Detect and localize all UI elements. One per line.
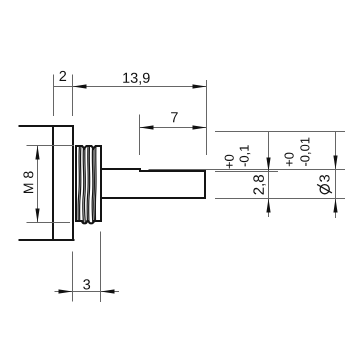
arrow M8 top xyxy=(35,146,39,160)
arrow 3 left outside xyxy=(59,289,73,293)
arrow M8 bottom xyxy=(35,209,39,223)
arrow 7 right xyxy=(193,125,207,129)
label 3 xyxy=(83,279,90,289)
wire shaft top (full diameter) xyxy=(101,168,140,170)
label tol -0,1 xyxy=(240,145,251,166)
label tol +0 of 2,8 xyxy=(225,155,234,169)
label dia3 diameter symbol circle xyxy=(320,185,329,194)
wire ext line shaft bottom xyxy=(215,198,345,200)
wire ext line 7-left xyxy=(139,115,141,156)
arrow dia3 top xyxy=(333,156,337,170)
wire shaft flat top xyxy=(140,170,205,172)
wire thread collar right face xyxy=(100,146,102,221)
arrow 13,9 left xyxy=(73,84,87,88)
wire thread collar top edge xyxy=(76,146,101,149)
label M 8 xyxy=(23,171,33,193)
wire ext line flat top xyxy=(215,171,278,173)
wire ext line 2-left xyxy=(53,75,55,117)
wire ext line 3-left xyxy=(72,252,74,302)
wire ext line 3-right xyxy=(100,232,102,303)
wire shaft bottom xyxy=(101,197,205,199)
wire M8 dim line xyxy=(37,146,39,223)
label dia3 diameter symbol slash xyxy=(317,184,332,193)
wire ext line 2-right / 13,9-left xyxy=(72,75,74,117)
wire shaft step xyxy=(139,169,141,171)
label 2,8 xyxy=(253,175,265,195)
wire dim line diameter 3 xyxy=(335,132,337,219)
wire body top edge xyxy=(20,125,74,127)
dimension thin lines xyxy=(27,75,346,303)
wire dim line 3 xyxy=(55,291,120,293)
wire thread collar bottom edge xyxy=(76,221,101,223)
wire thread crest line 4 xyxy=(83,146,86,222)
arrowheads xyxy=(35,84,337,293)
wire flange left face xyxy=(52,126,54,240)
wire dim line 2 and 13,9 xyxy=(54,86,207,88)
wire thread crest line 2 xyxy=(80,146,81,221)
wire M8 ext bottom xyxy=(27,222,71,224)
arrow 2,8 top xyxy=(266,158,270,172)
wire thread crest line 5 xyxy=(87,146,88,221)
arrow 3 right outside xyxy=(101,289,115,293)
wire thread crest line 7 xyxy=(91,148,94,222)
wire ext line right of 13,9 and 7 xyxy=(206,80,208,155)
arrow 13,9 right xyxy=(193,84,207,88)
wire thread crest line 3 xyxy=(83,148,84,222)
label dia3 digit xyxy=(319,175,329,182)
wire ext line shaft full top xyxy=(149,169,346,171)
label 7 xyxy=(171,112,178,122)
thread helix lines xyxy=(78,146,96,223)
wire thread crest line 1 xyxy=(78,146,79,221)
label tol +0 of dia3 xyxy=(285,153,294,167)
wire connector line top right xyxy=(215,131,345,133)
label tol -0,01 xyxy=(300,138,311,166)
wire thread collar left edge xyxy=(75,146,77,221)
wire body bottom edge xyxy=(20,239,74,241)
wire flange right face xyxy=(72,126,74,240)
wire shaft tip face xyxy=(204,171,206,198)
wire M8 ext top xyxy=(27,145,75,147)
wire dim line 2,8 xyxy=(268,132,270,218)
wire thread crest line 8 xyxy=(93,146,96,222)
wire thread crest line 9 xyxy=(94,146,97,221)
wire dim line 7 xyxy=(140,127,207,129)
label 2 xyxy=(60,71,67,81)
arrow dia3 bottom xyxy=(333,199,337,213)
wire thread crest line 6 xyxy=(89,146,90,221)
part outline group xyxy=(20,126,206,240)
label 13,9 xyxy=(123,73,149,85)
dimension texts xyxy=(23,71,329,290)
arrow 7 left xyxy=(140,125,154,129)
arrow 2,8 bottom xyxy=(266,199,270,213)
